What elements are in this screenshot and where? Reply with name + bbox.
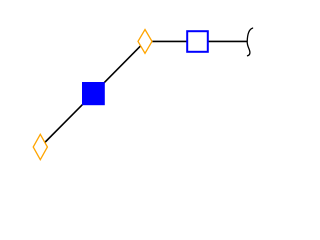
wire: linkage line from filled square S1 to diamond D2 xyxy=(93,41,145,93)
wire: linkage line from diamond D2 to open square S2 xyxy=(145,40,198,42)
wire: linkage line from diamond D1 to filled square S1 xyxy=(40,94,93,147)
node S2: open blue square xyxy=(187,31,208,52)
node D2: open orange diamond (upper middle) xyxy=(138,30,152,54)
node D1: open orange diamond (bottom left) xyxy=(33,134,47,159)
node S1: filled blue square xyxy=(82,82,105,105)
wire: linkage line from open square S2 to reducing-end squiggle xyxy=(198,40,248,42)
reducing-end squiggle xyxy=(247,28,252,56)
